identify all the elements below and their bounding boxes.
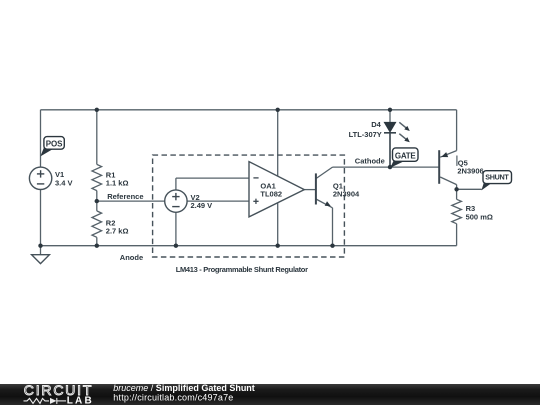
svg-text:POS: POS (46, 139, 63, 148)
svg-text:Anode: Anode (120, 253, 143, 262)
svg-text:SHUNT: SHUNT (485, 173, 509, 182)
svg-text:LTL-307Y: LTL-307Y (349, 130, 382, 139)
svg-text:2.7 kΩ: 2.7 kΩ (106, 227, 129, 236)
svg-text:2N3906: 2N3906 (457, 166, 483, 175)
svg-text:LAB: LAB (67, 396, 92, 405)
svg-text:3.4 V: 3.4 V (55, 179, 73, 188)
svg-text:500 mΩ: 500 mΩ (466, 213, 493, 222)
svg-text:Cathode: Cathode (355, 157, 385, 166)
svg-text:2.49 V: 2.49 V (191, 201, 213, 210)
svg-text:TL082: TL082 (260, 190, 282, 199)
svg-text:1.1 kΩ: 1.1 kΩ (106, 179, 129, 188)
svg-text:LM413 - Programmable Shunt Reg: LM413 - Programmable Shunt Regulator (176, 265, 308, 274)
svg-text:GATE: GATE (395, 151, 416, 160)
svg-text:D4: D4 (371, 120, 381, 129)
svg-text:bruceme / Simplified Gated Shu: bruceme / Simplified Gated Shunt (113, 383, 255, 393)
svg-text:2N3904: 2N3904 (333, 189, 360, 198)
svg-text:http://circuitlab.com/c497a7e: http://circuitlab.com/c497a7e (113, 393, 233, 403)
svg-text:Reference: Reference (107, 192, 143, 201)
